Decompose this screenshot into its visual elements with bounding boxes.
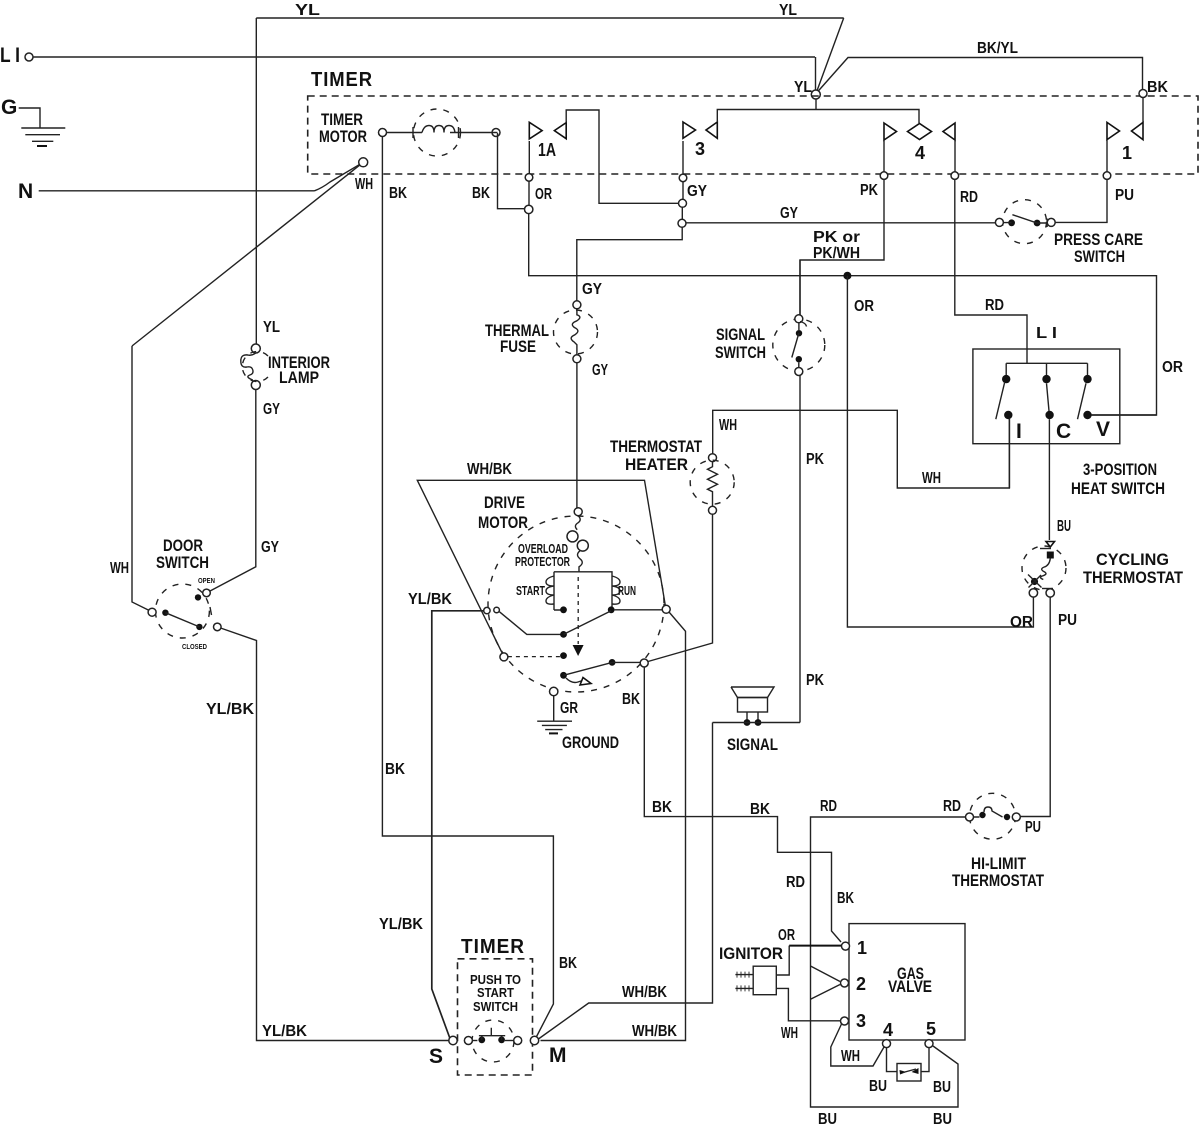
wire WH/BK speaker left — [536, 723, 712, 1041]
svg-text:WH/BK: WH/BK — [632, 1023, 677, 1040]
svg-text:BK: BK — [750, 801, 770, 818]
wire RD from contact 4 — [955, 179, 1027, 363]
svg-text:CYCLING: CYCLING — [1096, 550, 1169, 569]
gas valve pins — [842, 942, 850, 950]
svg-text:RD: RD — [985, 297, 1004, 314]
svg-text:V: V — [1096, 418, 1110, 441]
wire WH heat switch I down — [1008, 419, 1010, 488]
svg-text:3: 3 — [856, 1011, 866, 1031]
wire PU cycling to hi-limit — [1020, 597, 1050, 816]
svg-text:M: M — [549, 1044, 567, 1067]
ignitor leads — [735, 975, 753, 989]
svg-text:PU: PU — [1058, 612, 1077, 629]
svg-text:WH/BK: WH/BK — [467, 461, 512, 478]
svg-text:3-POSITION: 3-POSITION — [1083, 460, 1157, 479]
wire BK/YL diagonal from node — [817, 58, 1143, 94]
wire GY vertical to thermal fuse — [573, 301, 581, 309]
svg-text:START: START — [477, 985, 514, 1000]
cycling thermostat dashed circle — [1022, 546, 1066, 590]
svg-text:SWITCH: SWITCH — [156, 553, 209, 572]
svg-text:YL: YL — [779, 2, 797, 19]
wire WH vertical left — [132, 346, 152, 612]
drive motor dashed circle — [488, 516, 664, 692]
wire BK timer motor left down — [382, 137, 553, 1038]
contact 1A — [528, 141, 530, 205]
wire YL node to contact bus — [815, 99, 817, 110]
3-position heat switch box — [973, 349, 1120, 444]
svg-text:BK: BK — [389, 185, 407, 202]
svg-text:N: N — [18, 180, 33, 203]
svg-text:SIGNAL: SIGNAL — [727, 735, 778, 754]
svg-text:PU: PU — [1115, 187, 1134, 204]
svg-text:BK: BK — [837, 890, 854, 907]
svg-text:4: 4 — [915, 143, 925, 163]
gas valve box — [849, 924, 965, 1040]
svg-text:OPEN: OPEN — [198, 578, 215, 585]
svg-text:WH/BK: WH/BK — [622, 984, 667, 1001]
svg-text:GROUND: GROUND — [562, 733, 619, 752]
svg-text:PU: PU — [1025, 819, 1041, 836]
start coil — [546, 576, 554, 604]
svg-text:YL: YL — [263, 319, 280, 336]
svg-text:S: S — [429, 1045, 443, 1068]
svg-text:GY: GY — [780, 205, 798, 222]
svg-text:RD: RD — [960, 189, 978, 206]
svg-text:2: 2 — [856, 974, 866, 994]
thermal fuse dashed circle — [554, 310, 598, 354]
wire L1 riser to YL node — [815, 57, 817, 94]
motor ground terminal — [550, 687, 558, 695]
svg-text:WH: WH — [922, 470, 941, 487]
ground G symbol — [19, 108, 66, 141]
ground symbol motor — [537, 696, 572, 730]
svg-text:MOTOR: MOTOR — [478, 513, 528, 532]
svg-text:RD: RD — [943, 798, 961, 815]
wire N to timer motor WH terminal diagonal — [315, 162, 364, 191]
svg-text:DRIVE: DRIVE — [484, 493, 525, 512]
wire GY lamp to door switch — [207, 390, 256, 593]
svg-text:YL/BK: YL/BK — [379, 916, 423, 933]
node L1 terminal — [25, 53, 33, 61]
svg-text:5: 5 — [926, 1019, 936, 1039]
heat switch lower contacts — [1004, 411, 1012, 419]
thermostat heater terminals — [709, 454, 717, 462]
cycling thermostat — [1046, 542, 1055, 548]
wire N horizontal — [39, 190, 315, 192]
motor centrifugal switch — [500, 612, 564, 635]
run coil — [612, 576, 620, 604]
wire PK speaker to signal switch — [799, 376, 801, 723]
svg-text:RD: RD — [786, 874, 805, 891]
svg-text:BU: BU — [933, 1111, 952, 1125]
press care switch dashed circle — [1003, 200, 1047, 244]
wire WH/BK trapezoid over motor — [417, 480, 665, 653]
svg-text:BK: BK — [385, 761, 405, 778]
push to start switch dashed circle — [472, 1020, 514, 1062]
hi-limit switch — [966, 813, 974, 821]
push-to-start timer dashed box — [458, 959, 533, 1075]
wire speaker line — [713, 722, 801, 724]
svg-text:WH: WH — [355, 176, 373, 193]
svg-text:PK: PK — [806, 672, 824, 689]
motor terminals left — [484, 607, 490, 613]
svg-text:CLOSED: CLOSED — [182, 644, 207, 651]
wire WH heater top — [713, 410, 1010, 488]
timer motor terminals — [379, 129, 387, 137]
svg-text:OR: OR — [778, 927, 795, 944]
svg-text:RD: RD — [820, 798, 837, 815]
interior lamp dashed arc — [242, 352, 268, 382]
wire main left vertical upper segment — [255, 18, 257, 344]
svg-text:BU: BU — [869, 1078, 887, 1095]
svg-text:GY: GY — [582, 281, 602, 298]
svg-text:OR: OR — [854, 298, 874, 315]
svg-text:4: 4 — [883, 1020, 893, 1040]
timer motor coil — [387, 127, 497, 138]
wire BU heat switch C down — [1048, 419, 1050, 540]
svg-text:G: G — [1, 96, 17, 119]
drive motor overload protector terminal — [574, 508, 582, 516]
svg-text:PK: PK — [806, 451, 824, 468]
svg-text:SWITCH: SWITCH — [473, 999, 518, 1014]
svg-text:3: 3 — [695, 139, 705, 159]
contact 3 — [682, 141, 684, 174]
wire OR ignitor to pin1 — [776, 946, 789, 975]
svg-text:BK: BK — [472, 185, 490, 202]
svg-text:PK or: PK or — [813, 229, 860, 246]
timer motor dashed circle — [414, 109, 461, 156]
svg-text:TIMER: TIMER — [461, 936, 525, 958]
svg-text:SWITCH: SWITCH — [715, 343, 766, 362]
svg-text:BK: BK — [622, 691, 640, 708]
motor winding leads — [554, 609, 612, 611]
node OR branch dot — [843, 272, 851, 280]
wire BK run-terminal down to M — [541, 612, 686, 1041]
wire RD hi-limit left — [811, 817, 966, 1107]
push to start switch — [449, 1036, 457, 1044]
svg-text:BU: BU — [818, 1111, 837, 1125]
svg-text:BK: BK — [652, 799, 672, 816]
wire V contact to OR — [1092, 414, 1157, 416]
svg-text:OR: OR — [535, 186, 552, 203]
heat switch blades — [996, 383, 1086, 419]
wire WH diagonal timer motor to door switch — [132, 162, 363, 346]
svg-text:YL: YL — [794, 79, 812, 96]
svg-text:GY: GY — [261, 539, 279, 556]
press care switch — [995, 218, 1003, 226]
svg-text:PK/WH: PK/WH — [813, 245, 860, 262]
wire OR branch to cycling thermostat — [847, 276, 1033, 627]
timer dashed box — [308, 96, 1198, 174]
flame switch — [887, 1048, 930, 1072]
svg-text:OR: OR — [1010, 614, 1033, 631]
svg-text:WH: WH — [110, 560, 129, 577]
svg-text:GY: GY — [687, 183, 707, 200]
wire YL/BK door switch down left vertical — [217, 627, 449, 1041]
svg-text:BK: BK — [559, 955, 577, 972]
node OR junction circles — [525, 174, 533, 182]
hi-limit thermostat dashed circle — [970, 793, 1016, 839]
svg-text:L I: L I — [0, 44, 20, 67]
svg-text:SIGNAL: SIGNAL — [716, 325, 765, 344]
svg-text:TIMER: TIMER — [311, 69, 373, 91]
svg-text:THERMOSTAT: THERMOSTAT — [952, 871, 1044, 890]
wire L1 horizontal — [33, 56, 815, 58]
svg-text:1: 1 — [1122, 143, 1132, 163]
wire timer motor right to 1A junction — [498, 133, 526, 209]
wire PK from contact 4 — [800, 179, 884, 314]
svg-text:YL/BK: YL/BK — [408, 591, 452, 608]
drive motor winding box — [554, 572, 612, 610]
contact 4 — [884, 123, 897, 140]
wire YL diagonal to node — [816, 18, 844, 94]
door switch terminals and blade — [148, 608, 156, 616]
svg-text:BK/YL: BK/YL — [977, 40, 1018, 57]
svg-text:OR: OR — [1162, 359, 1183, 376]
heat switch bus — [1006, 363, 1087, 375]
wire YL top horizontal — [256, 17, 843, 19]
signal switch dashed circle — [773, 319, 825, 371]
heat switch upper contacts — [1002, 375, 1010, 383]
wire OR from 1A down to long bus — [529, 214, 1157, 415]
interior lamp terminals — [251, 344, 260, 353]
svg-text:MOTOR: MOTOR — [319, 127, 367, 146]
wire WH jumper pin4 to pin3 — [831, 1024, 884, 1066]
wire WH ignitor to pin3 — [776, 988, 840, 1020]
door switch dashed circle — [155, 584, 209, 638]
svg-text:HEATER: HEATER — [625, 455, 688, 474]
svg-text:WH: WH — [781, 1025, 798, 1042]
svg-text:YL: YL — [295, 2, 320, 19]
svg-text:THERMOSTAT: THERMOSTAT — [610, 437, 702, 456]
thermal fuse element — [571, 309, 580, 355]
svg-text:L I: L I — [1036, 325, 1057, 342]
svg-text:YL/BK: YL/BK — [206, 701, 254, 718]
wire PK signal switch top — [799, 260, 801, 315]
svg-text:GY: GY — [592, 362, 608, 379]
svg-text:YL/BK: YL/BK — [262, 1023, 307, 1040]
svg-text:RUN: RUN — [618, 583, 636, 598]
wire GY fuse to motor — [576, 363, 578, 508]
svg-text:BK: BK — [1147, 79, 1168, 96]
svg-text:1: 1 — [857, 938, 867, 958]
svg-text:HEAT SWITCH: HEAT SWITCH — [1071, 479, 1165, 498]
wire BK heater to centrifugal — [648, 514, 713, 661]
svg-text:LAMP: LAMP — [279, 368, 319, 387]
svg-text:I: I — [1016, 420, 1022, 443]
svg-text:1A: 1A — [538, 140, 556, 160]
svg-text:FUSE: FUSE — [500, 337, 536, 356]
wire run terminal — [615, 609, 662, 611]
thermostat heater dashed circle — [690, 460, 734, 504]
interior lamp filament — [241, 353, 256, 380]
svg-text:VALVE: VALVE — [888, 977, 932, 996]
wire GY long to press care — [686, 222, 995, 224]
svg-text:START: START — [516, 583, 545, 598]
svg-text:BU: BU — [1057, 518, 1071, 535]
wire PU contact 1 to press care — [1055, 179, 1107, 222]
svg-text:GR: GR — [560, 700, 578, 717]
svg-text:IGNITOR: IGNITOR — [719, 944, 783, 963]
thermostat heater resistor — [708, 462, 718, 507]
signal speaker — [731, 687, 774, 698]
wire RD to gas valve pin2 — [811, 966, 841, 999]
svg-text:BU: BU — [933, 1079, 951, 1096]
svg-text:WH: WH — [719, 417, 737, 434]
motor shaft dashed arrow — [577, 577, 579, 644]
svg-text:PK: PK — [860, 182, 878, 199]
svg-text:THERMOSTAT: THERMOSTAT — [1083, 568, 1184, 587]
svg-text:C: C — [1056, 420, 1071, 443]
wire BK centrifugal down — [644, 667, 841, 942]
contact 1 — [1107, 122, 1120, 139]
signal switch — [795, 315, 803, 323]
ignitor box — [753, 966, 776, 995]
wire YL/BK to motor — [432, 611, 484, 1038]
node YL junction circle — [811, 90, 820, 99]
svg-text:WH: WH — [841, 1048, 860, 1065]
svg-text:PROTECTOR: PROTECTOR — [515, 554, 570, 569]
svg-text:GY: GY — [263, 401, 280, 418]
svg-text:SWITCH: SWITCH — [1074, 247, 1125, 266]
